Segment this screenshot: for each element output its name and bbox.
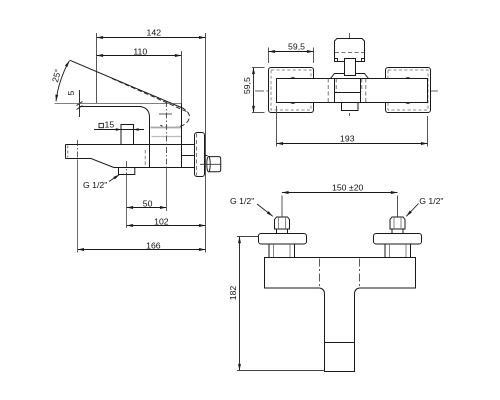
svg-text:150 ±20: 150 ±20	[332, 182, 364, 192]
svg-text:G 1/2": G 1/2"	[419, 196, 443, 206]
svg-text:59,5: 59,5	[242, 77, 252, 94]
svg-text:5: 5	[66, 91, 76, 96]
svg-text:102: 102	[154, 217, 169, 227]
svg-text:G 1/2": G 1/2"	[83, 180, 107, 190]
svg-text:15: 15	[105, 120, 115, 130]
svg-text:193: 193	[340, 134, 355, 144]
svg-text:110: 110	[133, 47, 147, 57]
svg-text:G 1/2": G 1/2"	[230, 196, 254, 206]
svg-text:59,5: 59,5	[288, 42, 305, 52]
svg-text:50: 50	[143, 198, 153, 208]
svg-text:25°: 25°	[50, 68, 63, 83]
svg-text:166: 166	[146, 241, 161, 251]
svg-text:182: 182	[228, 286, 238, 301]
svg-text:142: 142	[147, 28, 162, 38]
